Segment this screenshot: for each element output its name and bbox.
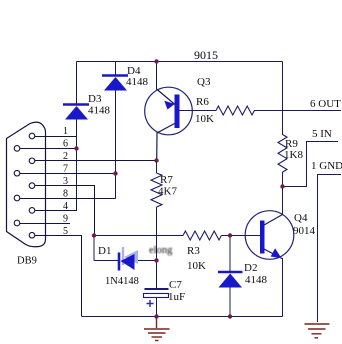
diode D1 ghost copy — [123, 247, 138, 265]
wire pin 1 to D3 line — [35, 136, 76, 138]
wire pin 4 to D3 line end — [35, 210, 77, 212]
resistor R9 — [278, 135, 287, 173]
svg-text:9014: 9014 — [293, 225, 316, 237]
svg-text:6: 6 — [63, 139, 68, 150]
wire Q3 base to R6 — [180, 110, 217, 112]
wire Q3 emitter up to rail — [156, 62, 158, 90]
svg-text:1uF: 1uF — [168, 291, 185, 303]
resistor R3 — [183, 231, 221, 240]
wire C7 bottom to ground rail — [156, 298, 158, 317]
svg-text:10K: 10K — [187, 260, 206, 272]
svg-text:5: 5 — [63, 226, 68, 237]
svg-text:D1: D1 — [98, 245, 111, 257]
svg-text:4148: 4148 — [88, 105, 111, 117]
wire collector node to R7 — [156, 161, 158, 173]
pin 5 circle — [29, 232, 35, 238]
capacitor C7 polarized — [144, 289, 169, 307]
svg-text:Q4: Q4 — [294, 212, 308, 224]
connector J1 DB9 shell — [7, 122, 46, 247]
diode D3 — [63, 105, 89, 120]
resistor R6 — [216, 106, 254, 115]
node pin 2 Q3 collector R7 — [154, 158, 158, 162]
diode D4 — [102, 76, 128, 91]
wire pin 2 to Q3 collector node — [35, 160, 156, 162]
diode D2 — [218, 272, 243, 288]
svg-text:1N4148: 1N4148 — [105, 276, 139, 287]
svg-text:4148: 4148 — [245, 274, 268, 286]
transistor Q4 NPN — [245, 211, 294, 260]
wire right rail down to R9 — [282, 62, 284, 136]
pin 6 circle — [14, 146, 20, 152]
svg-text:Q3: Q3 — [197, 76, 211, 88]
svg-text:R6: R6 — [196, 96, 209, 108]
pin number labels — [63, 126, 68, 237]
wire D3 anode down to pin 4 — [76, 120, 78, 211]
svg-text:R7: R7 — [160, 174, 173, 186]
svg-text:9015: 9015 — [194, 48, 218, 62]
wire pin 9 stub — [20, 223, 70, 225]
node C7 ground — [154, 314, 158, 318]
svg-text:4148: 4148 — [126, 76, 149, 88]
pin 2 circle — [29, 158, 35, 164]
node Q4 base and D2 — [228, 233, 232, 237]
node rail and Q3 emitter — [154, 59, 158, 63]
resistor R7 — [151, 173, 162, 207]
ground symbol center — [144, 317, 170, 341]
wire R7 bottom to D1 node — [156, 207, 158, 261]
svg-text:3: 3 — [63, 176, 68, 187]
node pin 3 TxD — [92, 233, 96, 237]
node D1 R7 C7 — [154, 258, 158, 262]
wire D4 cathode up to rail — [115, 62, 117, 76]
wire R3 to Q4 base node — [222, 235, 261, 237]
svg-text:1 GND: 1 GND — [311, 160, 342, 172]
pin 9 circle — [14, 220, 20, 226]
wire top supply rail — [77, 61, 283, 63]
wire pin 7 to D4 junction — [20, 173, 115, 175]
wire pin 5 to ground rail — [35, 236, 82, 317]
node pin 6 and D3 — [74, 146, 78, 150]
svg-text:1: 1 — [63, 126, 68, 137]
svg-text:DB9: DB9 — [17, 256, 37, 267]
svg-text:D2: D2 — [244, 262, 257, 274]
svg-text:2: 2 — [63, 151, 68, 162]
wire D1 node to C7 top — [156, 261, 158, 289]
wire R9 bottom to Q4 collector node — [282, 172, 284, 215]
wire D2 anode down to ground rail — [229, 288, 231, 317]
wire D3 cathode up to rail — [76, 62, 78, 105]
wire pin 3 down to TxD node — [35, 186, 95, 236]
svg-text:D3: D3 — [88, 93, 102, 105]
svg-text:R3: R3 — [187, 245, 200, 257]
wire 1 GND lead — [318, 175, 342, 323]
svg-text:C7: C7 — [169, 279, 182, 291]
node pin 7 and D4 — [113, 171, 117, 175]
connector pins — [14, 133, 35, 238]
node D2 ground rail — [228, 314, 232, 318]
wire D2 cathode up to base node — [229, 236, 231, 273]
pin 8 circle — [14, 195, 20, 201]
wire TxD node down and D1 row — [94, 236, 157, 261]
pin lead wires — [20, 137, 156, 317]
wire pin 8 to D4 line end — [20, 198, 116, 200]
node R9 5IN Q4 collector — [280, 184, 284, 188]
svg-text:10K: 10K — [195, 113, 214, 125]
pin 1 circle — [29, 133, 35, 139]
pin 7 circle — [14, 170, 20, 176]
transistor Q3 PNP — [145, 87, 193, 161]
svg-text:1K8: 1K8 — [284, 149, 303, 161]
svg-text:7: 7 — [63, 164, 68, 175]
pin 4 circle — [29, 208, 35, 214]
svg-text:elong: elong — [149, 245, 173, 256]
pin 3 circle — [29, 183, 35, 189]
wire 6 OUT output — [254, 110, 341, 112]
wire D4 anode down to pin 8 — [115, 91, 117, 199]
svg-text:4: 4 — [63, 201, 68, 212]
svg-text:6 OUT: 6 OUT — [310, 98, 341, 110]
wire 5 IN jog from R9 node — [283, 142, 339, 187]
diode D1 — [119, 253, 135, 271]
ground symbol right — [305, 324, 330, 338]
svg-text:5 IN: 5 IN — [312, 128, 332, 140]
svg-text:8: 8 — [63, 189, 68, 200]
svg-text:9: 9 — [63, 214, 68, 225]
wire pin 6 to D3 junction — [20, 148, 76, 150]
svg-text:4K7: 4K7 — [158, 186, 177, 198]
wire TxD node to R3 — [94, 235, 183, 237]
wire bottom ground rail — [82, 316, 283, 318]
wire Q4 emitter down to ground rail — [282, 258, 284, 317]
